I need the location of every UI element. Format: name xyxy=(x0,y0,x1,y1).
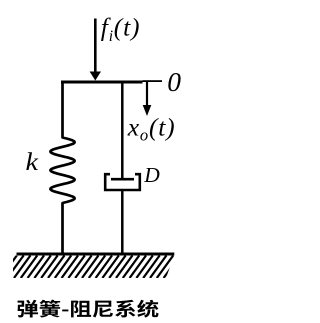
svg-text:fi(t): fi(t) xyxy=(101,13,140,46)
ground hatching xyxy=(0,256,200,279)
force arrow f_i(t) shaft xyxy=(94,19,97,73)
thin datum line to 0 xyxy=(143,80,163,82)
damper cylinder cup xyxy=(105,174,140,190)
svg-text:D: D xyxy=(143,163,160,187)
caption 弹簧-阻尼系统 (drawn as paths) xyxy=(18,300,159,318)
ground top line xyxy=(17,253,175,256)
svg-text:k: k xyxy=(26,149,40,176)
svg-text:xo(t): xo(t) xyxy=(127,113,176,145)
spring k (coil) xyxy=(50,84,74,256)
svg-text:0: 0 xyxy=(167,66,181,97)
damper rod (top) xyxy=(121,84,124,181)
displacement arrow x_o(t) shaft xyxy=(146,82,148,107)
force arrow head xyxy=(90,72,101,81)
displacement arrow head xyxy=(143,105,152,116)
top bar (mass-less plate) xyxy=(61,81,143,84)
damper piston plate xyxy=(111,178,134,181)
damper rod (bottom) xyxy=(121,190,124,255)
